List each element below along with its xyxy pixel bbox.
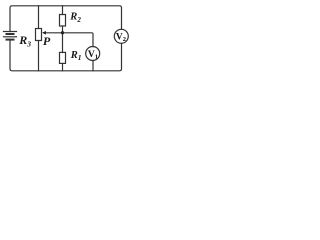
wire top bbox=[10, 6, 122, 32]
battery E plate long top bbox=[4, 31, 17, 33]
wire V1 to bottom bbox=[92, 60, 94, 70]
voltmeter V2 circle bbox=[114, 29, 128, 43]
wire R2 to R1 bbox=[62, 26, 64, 53]
wire rheostat branch top bbox=[38, 6, 40, 29]
wire wiper arrow shaft bbox=[44, 32, 63, 34]
svg-text:R2: R2 bbox=[69, 12, 81, 24]
wire bottom bbox=[10, 40, 122, 71]
voltmeter V1 circle bbox=[86, 47, 100, 61]
resistor R2 box bbox=[60, 15, 66, 27]
svg-text:P: P bbox=[43, 34, 51, 48]
battery E plate short bottom bbox=[7, 39, 14, 41]
wiper arrowhead bbox=[42, 31, 46, 35]
wire R2-R1 branch top bbox=[62, 6, 64, 15]
svg-text:R3: R3 bbox=[18, 33, 31, 49]
resistor R1 box bbox=[60, 52, 66, 63]
svg-text:R1: R1 bbox=[70, 50, 82, 62]
wire rheostat branch bottom bbox=[38, 41, 40, 71]
svg-text:V2: V2 bbox=[116, 32, 126, 43]
rheostat R3 box bbox=[36, 29, 42, 41]
wire node to V1 bbox=[63, 33, 94, 47]
wire R1 to bottom bbox=[62, 63, 64, 70]
battery E plate short top bbox=[7, 33, 14, 35]
svg-text:V1: V1 bbox=[88, 50, 98, 61]
battery E plate long bottom bbox=[4, 36, 17, 38]
node junction dot bbox=[61, 31, 64, 34]
